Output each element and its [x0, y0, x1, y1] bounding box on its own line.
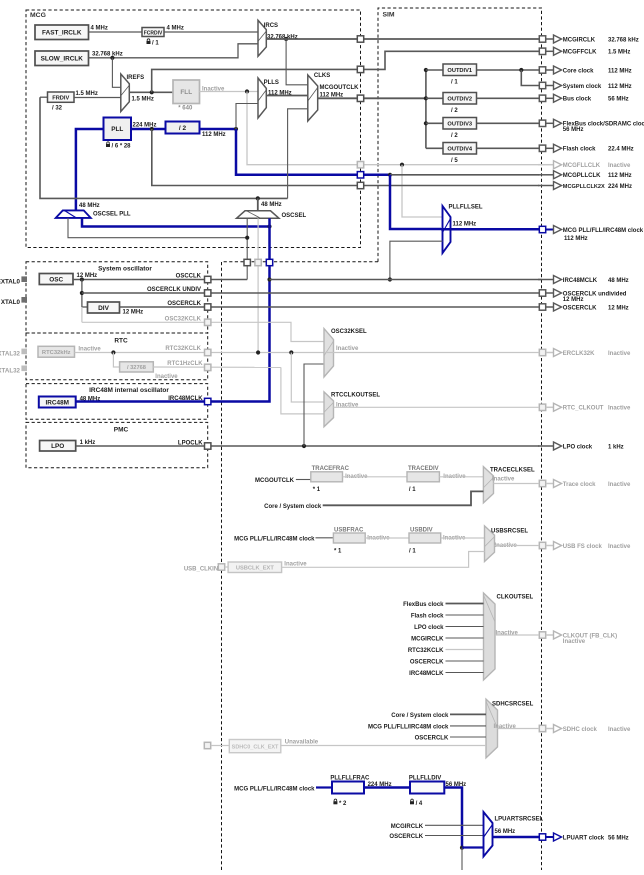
- label PLLFLLDIV value /4 with lock: [411, 799, 414, 801]
- wire MCGPLLCLK2X 224MHz: [152, 129, 540, 186]
- wire OUTDIV4 to Flash clock: [477, 147, 540, 149]
- junction IREFS out / MCGFFCLK branch: [150, 90, 154, 94]
- wire to OUTDIV2: [426, 97, 443, 99]
- wire LPOCLK row: [76, 445, 540, 447]
- wire RTC32KCLK row (inactive): [75, 352, 325, 354]
- wire continuation below LPUART junction: [461, 848, 463, 870]
- wire USBDIV to USBSRCSEL (inactive): [441, 537, 485, 539]
- svg-text:LPO clock: LPO clock: [563, 444, 593, 450]
- junction 48MHz / OSCSEL output: [256, 196, 260, 200]
- svg-text:12 MHz: 12 MHz: [563, 297, 584, 303]
- output ERCLK32K (inactive): [539, 349, 631, 357]
- wire SDHC clock output (inactive): [498, 728, 540, 730]
- svg-text:IRC48M internal oscillator: IRC48M internal oscillator: [89, 387, 169, 394]
- junction distribution / OUTDIV1: [424, 68, 428, 72]
- svg-text:Inactive: Inactive: [563, 639, 586, 645]
- svg-text:LPO clock: LPO clock: [414, 625, 444, 631]
- svg-text:Inactive: Inactive: [284, 562, 307, 568]
- output OSCERCLK: [539, 303, 628, 311]
- junction Core clock / System clock branch: [519, 68, 523, 72]
- wire MCG PLL/FLL/IRC48M clock output through mux (active): [441, 228, 539, 231]
- wire FRDIV input stub: [40, 96, 48, 98]
- multiplier PLLFLLFRAC (active): [330, 776, 370, 794]
- wire OUTDIV3 to FlexBus clock: [477, 122, 540, 124]
- svg-text:OSCERCLK: OSCERCLK: [389, 834, 423, 840]
- junction 112MHz / PLLS branch: [234, 127, 238, 131]
- svg-text:/ 1: / 1: [152, 41, 159, 47]
- oscillator RTC32kHz (inactive): [38, 346, 75, 357]
- wire FAST_IRCLK to FCRDIV: [89, 31, 143, 33]
- wire PLLFLLFRAC to PLLFLLDIV (active): [364, 786, 410, 789]
- wire 48MHz OSCSEL ref to FRDIV and CLKS: [40, 97, 288, 198]
- svg-text:FAST_IRCLK: FAST_IRCLK: [42, 30, 82, 37]
- svg-text:USBCLK_EXT: USBCLK_EXT: [236, 566, 274, 572]
- wire SDHC0_CLK_EXT to SDHCSRCSEL (inactive): [281, 745, 486, 747]
- junction IRC48MCLK row / PLLFLLSEL branch: [388, 277, 392, 281]
- junction MCGPLLCLK / PLLFLLSEL branch: [388, 173, 392, 177]
- svg-text:LPUART clock: LPUART clock: [563, 835, 605, 841]
- svg-text:12 MHz: 12 MHz: [123, 310, 144, 316]
- mux IREFS: [121, 74, 130, 112]
- svg-text:SDHC clock: SDHC clock: [563, 727, 598, 733]
- MCG module dashed boundary: [26, 10, 361, 248]
- svg-text:Flash clock: Flash clock: [563, 147, 596, 153]
- wire FCRDIV 4MHz to IRCS: [164, 31, 258, 33]
- output MCGPLLCLK: [538, 171, 632, 179]
- mux OSC32KSEL (inactive): [324, 329, 334, 377]
- port MCGOUTCLK on MCG boundary: [357, 95, 363, 101]
- svg-text:/ 32: / 32: [52, 106, 63, 112]
- wire MCGPLLCLK to PLLFLLSEL input: [390, 175, 441, 229]
- label PLL value /6 *28 with lock: [107, 142, 110, 144]
- svg-text:Inactive: Inactive: [155, 374, 178, 380]
- svg-text:Inactive: Inactive: [336, 346, 359, 352]
- port RTC32KCLK: [205, 349, 211, 355]
- wire stub to PLLFLLFRAC (active): [316, 786, 332, 788]
- svg-text:MCGOUTCLK: MCGOUTCLK: [255, 478, 295, 484]
- svg-text:MCG PLL/FLL/IRC48M clock: MCG PLL/FLL/IRC48M clock: [563, 228, 644, 234]
- svg-text:OSC32KCLK: OSC32KCLK: [165, 316, 202, 322]
- mux OSCSEL: [237, 211, 280, 219]
- wire 56MHz down to LPUARTSRCSEL (active): [444, 788, 462, 848]
- wire RTC32KCLK to RTCCLKOUTSEL (inactive): [291, 353, 324, 403]
- output MCG PLL/FLL/IRC48M clock: [539, 226, 644, 243]
- junction MCGIRCLK / CLKS branch: [284, 37, 288, 41]
- wire OSC distribution vertical: [81, 280, 83, 308]
- svg-text:* 2: * 2: [339, 801, 347, 807]
- port MCGFLLCLK on MCG boundary: [357, 162, 363, 168]
- wire to /32768 divider (inactive): [113, 353, 119, 368]
- svg-text:OSCSEL PLL: OSCSEL PLL: [93, 211, 131, 217]
- wire to OUTDIV4: [426, 147, 443, 149]
- System oscillator dashed box: [26, 262, 208, 333]
- wire IRC48MCLK stub: [446, 672, 484, 674]
- wire PLLS output to CLKS: [266, 95, 308, 97]
- wire MCGOUTCLK output row: [318, 97, 426, 99]
- wire MCGOUTCLK stub to TRACEFRAC: [296, 479, 311, 481]
- mux LPUARTSRCSEL (active): [484, 812, 493, 857]
- junction MCGOUTCLK / distribution vertical: [424, 96, 428, 100]
- svg-text:SIM: SIM: [383, 12, 395, 19]
- mux PLLFLLSEL (active): [443, 206, 451, 253]
- wire ERCLK32K output row through mux (inactive): [324, 352, 539, 354]
- svg-text:OUTDIV1: OUTDIV1: [447, 68, 472, 74]
- svg-text:224 MHz: 224 MHz: [608, 184, 632, 190]
- svg-text:Bus clock: Bus clock: [563, 97, 592, 103]
- svg-text:LPOCLK: LPOCLK: [178, 440, 203, 446]
- svg-text:OUTDIV4: OUTDIV4: [447, 147, 472, 153]
- divider OUTDIV2: [443, 93, 477, 105]
- output OSCERCLK undivided: [539, 289, 627, 303]
- output Bus clock: [539, 94, 628, 102]
- wire /2 output 112MHz: [200, 128, 237, 131]
- svg-text:112 MHz: 112 MHz: [453, 221, 477, 227]
- svg-text:OUTDIV2: OUTDIV2: [447, 97, 472, 103]
- svg-text:OUTDIV3: OUTDIV3: [447, 122, 472, 128]
- wire FLL output to PLLS (inactive): [200, 91, 259, 93]
- pad XTAL0: [21, 297, 27, 303]
- svg-text:MCGIRCLK: MCGIRCLK: [563, 37, 596, 43]
- wire USB FS clock output (inactive): [495, 545, 540, 547]
- svg-text:SDHC0_CLK_EXT: SDHC0_CLK_EXT: [232, 744, 279, 750]
- junction distribution / OUTDIV3: [424, 121, 428, 125]
- wire MCGIRCLK stub (lpuart): [425, 824, 484, 826]
- svg-text:FLL: FLL: [180, 89, 192, 96]
- svg-text:/ 2: / 2: [451, 108, 458, 114]
- svg-text:/ 5: / 5: [451, 158, 458, 164]
- wire OSC32KCLK to OSC32KSEL (inactive): [82, 322, 324, 341]
- wire USBFRAC to USBDIV (inactive): [365, 537, 409, 539]
- output MCGFFCLK: [539, 47, 630, 55]
- svg-text:MCGPLLCLK2X: MCGPLLCLK2X: [563, 184, 605, 190]
- junction OSCCLK / distribution vertical: [80, 277, 84, 281]
- divider TRACEDIV (inactive): [407, 466, 439, 482]
- svg-text:OSCERCLK: OSCERCLK: [563, 305, 597, 311]
- wire OSCERCLK stub (sdhc): [450, 736, 486, 738]
- wire 56MHz into LPUARTSRCSEL: [462, 846, 484, 848]
- port OSCERCLK UNDIV: [205, 290, 211, 296]
- svg-text:32.768 kHz: 32.768 kHz: [608, 37, 639, 43]
- svg-text:OSCERCLK: OSCERCLK: [167, 301, 201, 307]
- svg-text:IRC48MCLK: IRC48MCLK: [409, 671, 444, 677]
- svg-text:56 MHz: 56 MHz: [608, 835, 629, 841]
- input SDHC0_CLK_EXT (unavailable): [229, 740, 280, 753]
- wire PLL 224MHz out: [131, 128, 166, 131]
- wire LPO branch to OSC32KSEL: [304, 364, 324, 446]
- svg-text:SLOW_IRCLK: SLOW_IRCLK: [41, 56, 84, 63]
- input USBCLK_EXT (inactive): [228, 562, 282, 573]
- svg-text:1 kHz: 1 kHz: [608, 444, 624, 450]
- IRC48M internal oscillator dashed box: [26, 384, 208, 420]
- svg-text:MCG PLL/FLL/IRC48M clock: MCG PLL/FLL/IRC48M clock: [368, 724, 449, 730]
- svg-text:/ 6 * 28: / 6 * 28: [112, 144, 132, 150]
- output MCGFLLCLK (inactive): [538, 161, 631, 169]
- divider FRDIV: [48, 92, 75, 102]
- oscillator SLOW_IRCLK: [35, 51, 89, 66]
- svg-text:XTAL0: XTAL0: [1, 299, 21, 306]
- svg-text:System clock: System clock: [563, 84, 602, 90]
- svg-text:/ 1: / 1: [409, 549, 416, 555]
- wire IRC48MCLK output row to SIM edge: [270, 279, 542, 281]
- svg-text:OSCSEL: OSCSEL: [282, 213, 307, 219]
- svg-text:MCG: MCG: [30, 12, 46, 19]
- wire MCGPLLCLK 112MHz (MCG side): [236, 129, 390, 175]
- svg-text:56 MHz: 56 MHz: [608, 97, 629, 103]
- svg-text:EXTAL0: EXTAL0: [0, 279, 21, 286]
- svg-text:12 MHz: 12 MHz: [77, 273, 98, 279]
- wire LPO clock stub: [446, 626, 484, 628]
- wire OSCERCLK stub: [446, 660, 484, 662]
- wire LPUART clock output (active): [493, 836, 540, 839]
- output Trace clock (inactive): [539, 480, 631, 488]
- wire IRC48MCLK from IRC48M (active): [76, 400, 208, 403]
- wire MCGOUTCLK distribution vertical: [425, 70, 427, 148]
- output Flash clock: [539, 144, 633, 152]
- wire to DIV: [82, 306, 88, 308]
- output MCGIRCLK: [539, 35, 638, 43]
- svg-text:12 MHz: 12 MHz: [608, 305, 629, 311]
- svg-text:* 1: * 1: [313, 487, 321, 493]
- wire USB_CLKIN stub: [225, 566, 228, 568]
- divider /32768 (inactive): [120, 362, 154, 372]
- junction RTC32KCLK / 32768 divider branch: [111, 350, 115, 354]
- svg-text:PLL: PLL: [111, 126, 123, 133]
- FLL block (inactive): [173, 80, 200, 104]
- wire IRC48MCLK branch to PLLFLLSEL: [390, 241, 443, 279]
- wire FRDIV 1.5MHz to IREFS: [74, 97, 121, 99]
- svg-text:RTCCLKOUTSEL: RTCCLKOUTSEL: [331, 392, 380, 398]
- output MCGPLLCLK2X: [538, 182, 632, 190]
- output LPUART clock: [539, 833, 628, 841]
- port RTC1HzCLK: [205, 364, 211, 370]
- wire SLOW_IRCLK branch to IREFS: [112, 58, 120, 88]
- svg-text:56 MHz: 56 MHz: [563, 127, 584, 133]
- port MCGPLLCLK on MCG boundary: [357, 172, 363, 178]
- svg-text:XTAL32: XTAL32: [0, 368, 21, 375]
- wire CLKOUT output (inactive): [495, 634, 539, 636]
- svg-text:4 MHz: 4 MHz: [167, 26, 184, 32]
- wire MCGIRCLK stub: [446, 637, 484, 639]
- svg-text:* 1: * 1: [334, 549, 342, 555]
- junction OSCERCLK UNDIV branch: [80, 291, 84, 295]
- svg-text:FRDIV: FRDIV: [52, 95, 69, 101]
- svg-text:112 MHz: 112 MHz: [608, 68, 632, 74]
- junction SLOW_IRCLK / IREFS branch: [110, 56, 114, 60]
- mux OSCSEL PLL (active): [56, 210, 91, 218]
- port IRC48MCLK: [205, 398, 211, 404]
- wire MCGFLLCLK (inactive): [247, 92, 539, 165]
- svg-text:/ 2: / 2: [451, 133, 458, 139]
- mux USBSRCSEL (inactive): [485, 526, 495, 562]
- svg-text:/ 32768: / 32768: [127, 365, 146, 371]
- wire 48MHz external ref to CLKS: [288, 109, 308, 199]
- mux SDHCSRCSEL (inactive): [486, 699, 498, 758]
- svg-text:Unavailable: Unavailable: [285, 740, 319, 746]
- divider DIV (OSCERCLK): [88, 302, 120, 313]
- wire IRC48MCLK branch to OSCSEL PLL (active): [82, 218, 270, 227]
- svg-text:RTC32KCLK: RTC32KCLK: [165, 346, 201, 352]
- svg-text:LPO: LPO: [51, 443, 64, 450]
- svg-text:Inactive: Inactive: [608, 163, 631, 169]
- svg-text:112 MHz: 112 MHz: [608, 84, 632, 90]
- svg-text:/ 2: / 2: [179, 125, 187, 132]
- svg-text:22.4 MHz: 22.4 MHz: [608, 147, 634, 153]
- svg-text:Flash clock: Flash clock: [411, 614, 444, 620]
- svg-text:1.5 MHz: 1.5 MHz: [132, 96, 154, 102]
- wire Core/System clock stub (sdhc): [450, 713, 486, 715]
- wire OSCCLK branch to OSCSEL PLL: [68, 218, 247, 238]
- mux RTCCLKOUTSEL (inactive): [324, 392, 334, 427]
- wire FlexBus clock stub: [446, 603, 484, 605]
- mux PLLS: [258, 78, 266, 118]
- wire RTC32KCLK stub (inactive): [446, 649, 484, 651]
- junction RTC32KCLK / OSCSEL leg: [256, 350, 260, 354]
- svg-text:FlexBus clock: FlexBus clock: [403, 602, 444, 608]
- wire OSCCLK input leg to OSCSEL: [246, 218, 248, 279]
- svg-text:DIV: DIV: [98, 305, 110, 312]
- junction RTC32KCLK / RTCCLKOUTSEL branch: [289, 350, 293, 354]
- svg-text:Inactive: Inactive: [78, 347, 101, 353]
- output SDHC clock (inactive): [539, 725, 631, 733]
- svg-text:ERCLK32K: ERCLK32K: [563, 351, 595, 357]
- wire OUTDIV2 to Bus clock: [477, 97, 540, 99]
- wire OUTDIV1 to Core clock: [477, 69, 540, 71]
- svg-text:48 MHz: 48 MHz: [79, 203, 100, 209]
- svg-text:Core / System clock: Core / System clock: [264, 504, 322, 510]
- svg-text:1.5 MHz: 1.5 MHz: [608, 50, 630, 56]
- port MCGFFCLK on MCG boundary: [357, 66, 363, 72]
- svg-text:4 MHz: 4 MHz: [91, 26, 108, 32]
- wire Flash clock stub: [446, 614, 484, 616]
- mux CLKOUTSEL (inactive): [484, 593, 496, 680]
- svg-text:MCGOUTCLK: MCGOUTCLK: [320, 85, 360, 91]
- svg-text:112 MHz: 112 MHz: [564, 236, 588, 242]
- wire RTC1HzCLK row (inactive): [153, 366, 281, 368]
- svg-text:CLKOUTSEL: CLKOUTSEL: [497, 595, 534, 601]
- divider FCRDIV: [142, 28, 164, 37]
- svg-text:RTC_CLKOUT: RTC_CLKOUT: [563, 406, 604, 412]
- junction LPOCLK / OSC32KSEL branch: [302, 444, 306, 448]
- svg-text:/ 1: / 1: [451, 80, 458, 86]
- PMC dashed box: [26, 422, 208, 467]
- divider OUTDIV4: [443, 143, 477, 155]
- port MCGPLLCLK2X on MCG boundary: [357, 182, 363, 188]
- svg-text:1 kHz: 1 kHz: [80, 440, 96, 446]
- wire IRC48MCLK vertical to OSCSEL (active): [208, 218, 270, 401]
- svg-text:USBSRCSEL: USBSRCSEL: [491, 528, 528, 534]
- svg-text:MCG PLL/FLL/IRC48M clock: MCG PLL/FLL/IRC48M clock: [234, 536, 315, 542]
- output Core clock: [539, 66, 631, 74]
- junction FLL out / MCGFLLCLK branch: [245, 89, 249, 93]
- svg-text:MCGFLLCLK: MCGFLLCLK: [563, 163, 601, 169]
- svg-text:MCGFFCLK: MCGFFCLK: [563, 50, 597, 56]
- wire TRACEFRAC to TRACEDIV (inactive): [343, 476, 408, 478]
- svg-text:RTC1HzCLK: RTC1HzCLK: [167, 361, 203, 367]
- output USB FS clock (inactive): [539, 542, 631, 550]
- svg-text:Inactive: Inactive: [608, 482, 631, 488]
- pad XTAL32: [21, 366, 27, 372]
- svg-text:RTC: RTC: [114, 338, 128, 345]
- divider OUTDIV3: [443, 118, 477, 130]
- divider PLLFLLDIV (active): [409, 776, 444, 794]
- svg-text:IREFS: IREFS: [127, 75, 145, 81]
- wire OSCERCLK UNDIV row: [82, 292, 539, 294]
- svg-text:OSC32KSEL: OSC32KSEL: [331, 329, 367, 335]
- label PLLFLLFRAC value *2 with lock: [334, 799, 337, 801]
- svg-text:OSC: OSC: [49, 276, 63, 283]
- divider USBDIV (inactive): [409, 528, 441, 544]
- svg-text:IRC48MCLK: IRC48MCLK: [168, 396, 203, 402]
- wire OSCERCLK stub (lpuart): [425, 835, 484, 837]
- svg-text:Core / System clock: Core / System clock: [391, 713, 449, 719]
- output CLKOUT FB_CLK (inactive): [539, 631, 617, 645]
- svg-text:RTC32kHz: RTC32kHz: [42, 350, 71, 356]
- wire OSCSEL PLL 48MHz to PLL (active): [76, 129, 104, 210]
- junction PLL out / MCGPLLCLK2X branch: [150, 127, 154, 131]
- svg-text:32.768 kHz: 32.768 kHz: [92, 51, 123, 57]
- junction IRC48MCLK vertical / OSCSEL PLL branch: [267, 224, 271, 228]
- svg-text:48 MHz: 48 MHz: [261, 202, 282, 208]
- wire MCGFFCLK: [152, 51, 540, 92]
- svg-text:* 640: * 640: [178, 106, 193, 112]
- svg-text:MCGIRCLK: MCGIRCLK: [411, 637, 444, 643]
- port MCGIRCLK on MCG boundary: [357, 36, 363, 42]
- svg-text:TRACECLKSEL: TRACECLKSEL: [490, 467, 535, 473]
- wire 112MHz branch to PLLS: [236, 104, 258, 130]
- svg-text:IRC48MCLK: IRC48MCLK: [563, 278, 598, 284]
- wire RTC1HzCLK to RTCCLKOUTSEL (inactive): [281, 367, 324, 414]
- svg-text:112 MHz: 112 MHz: [608, 173, 632, 179]
- svg-text:Trace clock: Trace clock: [563, 482, 596, 488]
- PLL block (active): [104, 118, 132, 141]
- svg-text:112 MHz: 112 MHz: [202, 132, 226, 138]
- multiplier TRACEFRAC (inactive): [311, 466, 350, 482]
- svg-text:PLLS: PLLS: [264, 80, 279, 86]
- svg-text:Inactive: Inactive: [608, 727, 631, 733]
- svg-text:IRC48M: IRC48M: [46, 399, 69, 406]
- wire MCG PLL/FLL stub (sdhc): [450, 725, 486, 727]
- junction OSCCLK leg / OSCSEL PLL row: [245, 236, 249, 240]
- junction IRC48MCLK vertical / IRC48MCLK output row: [267, 277, 271, 281]
- wire OSC32KCLK drop (inactive): [81, 307, 83, 322]
- wire TRACEDIV to TRACECLKSEL (inactive): [439, 476, 483, 478]
- RTC dashed box: [26, 333, 208, 380]
- wire IREFS output to FLL: [129, 91, 173, 93]
- svg-text:LPUARTSRCSEL: LPUARTSRCSEL: [495, 817, 544, 823]
- port OSCERCLK: [205, 304, 211, 310]
- label FCRDIV value /1 with lock: [147, 39, 150, 41]
- svg-text:56 MHz: 56 MHz: [495, 829, 516, 835]
- svg-text:System oscillator: System oscillator: [98, 266, 152, 273]
- port OSC32KCLK: [205, 319, 211, 325]
- wire OSCCLK row: [73, 279, 247, 281]
- wire OSCERCLK row: [120, 306, 540, 308]
- SIM module dashed boundary (top/right): [378, 8, 542, 870]
- svg-text:CLKS: CLKS: [314, 73, 330, 79]
- wire System clock branch: [521, 70, 539, 86]
- SIM module dashed boundary (bottom-left): [222, 262, 379, 870]
- svg-text:MCGIRCLK: MCGIRCLK: [391, 824, 424, 830]
- output LPO clock: [538, 442, 624, 450]
- svg-text:MCGPLLCLK: MCGPLLCLK: [563, 173, 601, 179]
- svg-text:OSCERCLK: OSCERCLK: [410, 660, 444, 666]
- svg-text:OSCERCLK: OSCERCLK: [415, 736, 449, 742]
- svg-text:FCRDIV: FCRDIV: [144, 30, 163, 36]
- svg-text:SDHCSRCSEL: SDHCSRCSEL: [492, 702, 534, 708]
- output IRC48MCLK: [538, 276, 629, 284]
- wire Trace clock output (inactive): [494, 483, 540, 485]
- wire stub to USBFRAC: [316, 537, 334, 539]
